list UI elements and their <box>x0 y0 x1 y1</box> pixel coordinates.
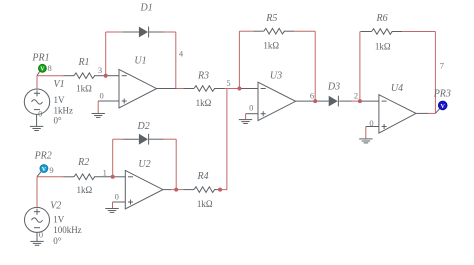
svg-text:7: 7 <box>440 61 444 71</box>
svg-text:V: V <box>441 104 446 110</box>
svg-text:0°: 0° <box>53 236 62 246</box>
svg-text:D2: D2 <box>136 121 149 132</box>
wire D2 anode horizontal <box>113 138 123 140</box>
wire U2 output stub <box>163 189 171 191</box>
wire D3 cathode stub <box>339 100 351 102</box>
resistor R1 <box>74 73 95 79</box>
wire node 5 to U3 minus pin <box>239 88 258 90</box>
wire U2 output to R4 left pin <box>171 189 184 191</box>
svg-text:0: 0 <box>39 229 43 239</box>
resistor R2 <box>74 174 95 180</box>
svg-text:U1: U1 <box>134 55 146 66</box>
wire U2 plus pin to ground <box>113 201 126 203</box>
wire U1 output to R3 left pin <box>177 88 184 90</box>
svg-text:R5: R5 <box>265 13 277 24</box>
svg-text:8: 8 <box>47 63 51 73</box>
svg-text:1V: 1V <box>53 215 64 225</box>
svg-text:V1: V1 <box>54 79 65 90</box>
wire D1 cathode horizontal <box>164 31 176 33</box>
wire D2 down to U2 output <box>175 139 177 189</box>
node 5 <box>237 87 241 91</box>
wire R1 left pin stub <box>64 75 75 77</box>
svg-text:V: V <box>42 167 47 173</box>
wire V1 top vertical <box>36 76 38 89</box>
svg-text:0: 0 <box>369 118 373 128</box>
svg-text:1kΩ: 1kΩ <box>196 98 212 108</box>
wire D1 anode horizontal <box>106 31 123 33</box>
svg-text:PR2: PR2 <box>34 151 52 162</box>
node 3 <box>104 74 108 78</box>
source V2 <box>25 207 50 232</box>
svg-text:D1: D1 <box>139 2 152 13</box>
wire D3 to node 2 <box>352 100 360 102</box>
wire U3 plus pin to ground <box>246 113 258 115</box>
ground below V2 <box>30 232 43 245</box>
wire R5 right horizontal <box>294 30 315 32</box>
wire R6 down to U4 output node 7 <box>434 32 436 114</box>
svg-text:1kHz: 1kHz <box>54 106 74 116</box>
probe PR2 <box>34 151 52 177</box>
svg-text:1V: 1V <box>54 95 66 105</box>
svg-text:0: 0 <box>249 103 253 113</box>
wire R3 right pin stub <box>214 88 225 90</box>
wire U4 output to corner <box>428 112 435 114</box>
svg-text:U2: U2 <box>138 159 150 170</box>
ground U4 plus <box>359 139 372 143</box>
svg-text:D3: D3 <box>327 82 340 93</box>
junction dot R4 right pin <box>218 188 222 192</box>
svg-text:1: 1 <box>103 168 107 178</box>
svg-text:1kΩ: 1kΩ <box>76 84 92 94</box>
svg-text:1kΩ: 1kΩ <box>76 185 92 195</box>
ground below V1 <box>30 114 43 130</box>
svg-text:R3: R3 <box>197 71 209 82</box>
svg-text:V: V <box>40 67 45 73</box>
svg-text:U4: U4 <box>391 83 403 94</box>
op-amp U4 <box>379 95 416 133</box>
wire node 5 up to R5 <box>238 31 240 88</box>
wire U4 output stub <box>416 112 428 114</box>
svg-text:PR3: PR3 <box>433 88 451 99</box>
wire R3 to node 5 <box>225 88 240 90</box>
wire node 2 up to R6 <box>359 32 361 102</box>
svg-text:1kΩ: 1kΩ <box>375 41 391 51</box>
wire V1 to R1 <box>37 75 64 77</box>
probe PR3 <box>433 88 451 113</box>
wire R6 left pin stub <box>360 31 371 33</box>
probe PR1 <box>31 52 49 75</box>
op-amp U3 <box>258 82 296 120</box>
wire R1 right pin to node 3 <box>94 75 106 77</box>
svg-text:0: 0 <box>115 192 119 202</box>
ground U3 plus <box>239 120 252 124</box>
wire node 1 up to D2 <box>112 139 114 177</box>
wire node 5 branch down to R4 <box>220 89 227 190</box>
wire node 2 to U4 minus pin <box>360 100 379 102</box>
wire V2 to R2 <box>37 176 64 178</box>
svg-text:0: 0 <box>38 109 42 119</box>
svg-text:1kΩ: 1kΩ <box>263 40 279 50</box>
wire U3 output stub to node 6 <box>296 100 316 102</box>
svg-text:R6: R6 <box>376 13 388 24</box>
wire V2 top vertical <box>36 177 38 208</box>
wire R5 down to node 6 <box>314 31 316 101</box>
wire R4 right pin stub <box>214 189 220 191</box>
wire U1 output stub <box>157 88 177 90</box>
wire R6 right horizontal <box>402 31 435 33</box>
svg-text:R4: R4 <box>197 171 209 182</box>
resistor R6 <box>372 29 393 35</box>
svg-text:U3: U3 <box>270 71 282 82</box>
op-amp U2 <box>125 170 163 209</box>
node 6 <box>313 99 317 103</box>
svg-text:2: 2 <box>354 90 358 100</box>
source V1 <box>24 89 49 114</box>
wire R2 left pin stub <box>64 176 75 178</box>
ground U1 plus <box>92 114 105 118</box>
svg-text:4: 4 <box>179 49 184 59</box>
resistor R5 <box>264 28 285 34</box>
svg-text:0: 0 <box>99 90 103 100</box>
svg-text:PR1: PR1 <box>31 52 49 63</box>
resistor R4 <box>194 187 215 193</box>
svg-text:0°: 0° <box>54 116 63 126</box>
diode D2 <box>123 134 164 145</box>
svg-text:R2: R2 <box>77 157 89 168</box>
wire node 1 to U2 minus pin <box>113 176 126 178</box>
node 2 <box>358 99 362 103</box>
wire D2 cathode horizontal <box>164 138 177 140</box>
svg-text:1kΩ: 1kΩ <box>197 199 213 209</box>
wire U1 plus pin to ground <box>98 100 119 102</box>
svg-text:V2: V2 <box>50 201 61 212</box>
wire node 3 to U1 minus pin <box>106 75 119 77</box>
wire D1 down to U1 output node 4 <box>175 32 177 89</box>
wire U4 plus pin to ground <box>366 126 379 128</box>
diode D1 <box>123 27 164 38</box>
junction dot U2 output / D2 <box>174 188 178 192</box>
wire node 6 to D3 anode <box>315 100 329 102</box>
svg-text:R1: R1 <box>77 57 89 68</box>
svg-text:5: 5 <box>226 78 230 88</box>
resistor R3 <box>194 86 215 92</box>
ground U2 plus <box>105 209 118 213</box>
wire R5 left pin stub <box>253 30 263 32</box>
svg-text:9: 9 <box>49 165 53 175</box>
wire R3 left pin stub <box>184 88 195 90</box>
wire R4 left pin stub <box>184 189 195 191</box>
node 1 <box>111 175 115 179</box>
wire R6 right pin stub <box>392 31 402 33</box>
svg-text:3: 3 <box>98 65 102 75</box>
svg-text:100kHz: 100kHz <box>53 225 81 235</box>
wire R2 right pin to node 1 <box>94 176 113 178</box>
wire R5 right pin stub <box>284 30 295 32</box>
wire node 3 up to D1 <box>105 32 107 76</box>
svg-text:6: 6 <box>310 90 314 100</box>
op-amp U1 <box>119 69 157 108</box>
diode D3 <box>329 96 339 107</box>
wire R5 left horizontal <box>239 30 253 32</box>
